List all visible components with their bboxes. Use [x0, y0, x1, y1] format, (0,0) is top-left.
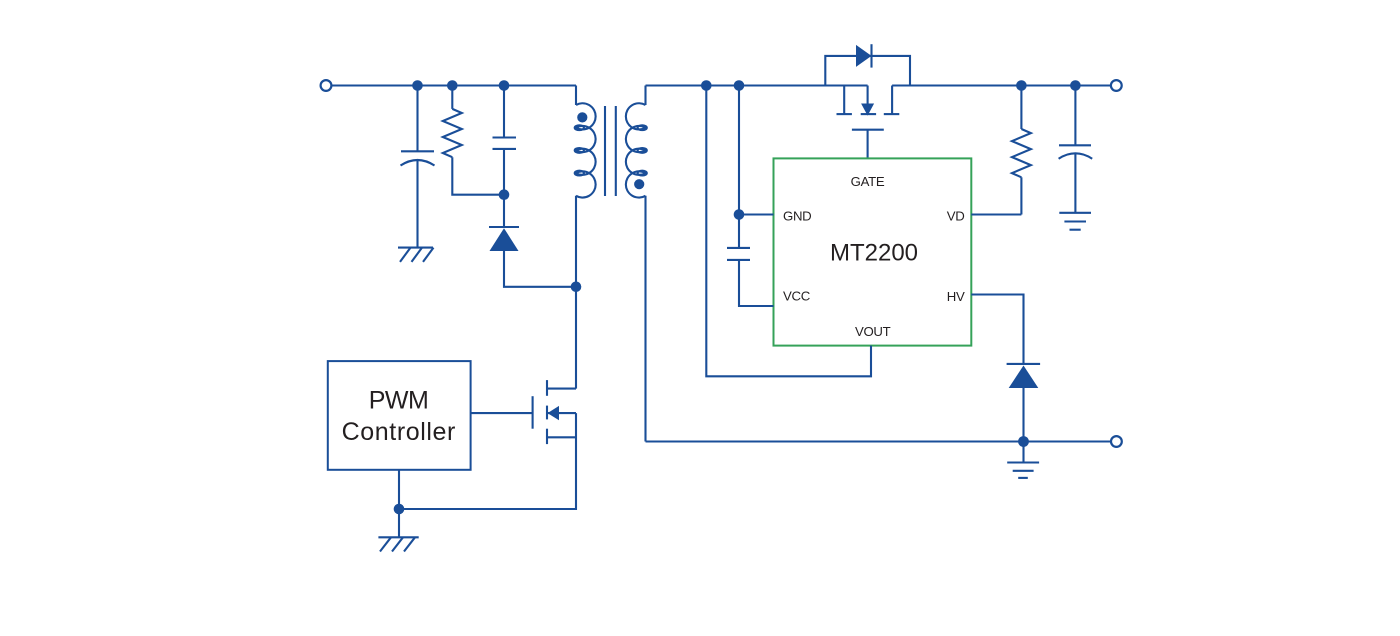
wire: R2 top lead	[1020, 86, 1022, 130]
resistor R1 (snubber)	[443, 109, 462, 157]
node: rail / C1 junction	[412, 80, 423, 91]
wire: Q1 drain to primary	[575, 287, 577, 389]
wire: C4 top lead	[1074, 86, 1076, 146]
svg-text:GATE: GATE	[851, 174, 885, 189]
wire: rail from Q2 source to output	[892, 84, 1111, 86]
node: primary bottom / drain junction	[571, 282, 582, 293]
node: rail / VCC-wire junction	[734, 80, 745, 91]
wire: HV pin to D3	[971, 295, 1023, 366]
wire: D1 anode to primary bottom node	[504, 251, 576, 287]
wire: bottom rail	[646, 440, 1111, 442]
capacitor C3 (VCC bypass)	[727, 248, 750, 260]
wire: Q2 body-diode loop	[825, 56, 910, 86]
primary winding dot	[577, 112, 587, 122]
node: GND pin junction	[734, 209, 745, 220]
wire: VD pin to R2	[971, 213, 1021, 215]
diode D1 (snubber, cathode up)	[489, 227, 519, 251]
node: R1/C2/D1 junction	[499, 189, 510, 200]
node: rail / VOUT-wire junction	[701, 80, 712, 91]
wire: R1 top lead	[451, 86, 453, 109]
transformer T1 secondary winding	[626, 86, 647, 442]
wire: VCC rail from top	[738, 86, 740, 248]
output terminal (bottom-right)	[1111, 436, 1122, 447]
svg-text:VD: VD	[947, 208, 965, 223]
svg-text:PWM: PWM	[369, 386, 429, 414]
output terminal (top-right)	[1111, 80, 1122, 91]
ground (chassis, under C1)	[398, 248, 434, 262]
node: bottom rail / D3 junction	[1018, 436, 1029, 447]
diode D3 (HV, cathode up)	[1007, 364, 1041, 388]
ground (chassis, under PWM)	[378, 537, 418, 551]
svg-text:MT2200: MT2200	[830, 240, 918, 267]
wire: C3 to VCC pin	[739, 260, 774, 306]
IC U1 MT2200 box	[774, 158, 972, 345]
wire: VOUT pin routing	[706, 86, 871, 377]
capacitor C4 (output, polarized)	[1059, 145, 1093, 158]
capacitor C2 (snubber)	[493, 138, 517, 149]
wire: D3 anode to bottom rail	[1022, 388, 1024, 442]
mosfet Q1 (primary switch, vertical)	[533, 380, 576, 444]
node: rail / R2 junction	[1016, 80, 1027, 91]
svg-text:Controller: Controller	[342, 418, 456, 446]
wire: C1 top lead	[416, 86, 418, 152]
wire: Q2 gate to GATE pin	[867, 130, 869, 159]
wire: top-left rail from input terminal to primary	[332, 84, 576, 86]
wire: C1 bottom lead	[416, 160, 418, 247]
input terminal (top-left)	[321, 80, 332, 91]
wire: C2 top lead	[503, 86, 505, 138]
PWM controller box	[328, 361, 471, 470]
transformer core	[605, 106, 616, 196]
wire: R1 bottom lead to junction	[452, 157, 504, 195]
svg-text:GND: GND	[783, 208, 811, 223]
svg-text:VCC: VCC	[783, 289, 811, 304]
wire: C2 bottom lead	[503, 149, 505, 227]
wire: GND pin	[739, 213, 774, 215]
secondary winding dot	[634, 179, 644, 189]
wire: secondary top rail (to Q2 drain side)	[646, 84, 868, 86]
wire: R2 bottom lead	[1020, 177, 1022, 214]
ground (signal, under C4)	[1059, 213, 1091, 230]
ground (signal, under bottom rail)	[1007, 442, 1039, 478]
wire: PWM box to ground	[398, 470, 400, 538]
wire: C4 bottom lead	[1074, 154, 1076, 213]
mosfet Q2 (sync rectifier, horizontal)	[837, 86, 900, 130]
svg-text:HV: HV	[947, 289, 965, 304]
node: rail / C4 junction	[1070, 80, 1081, 91]
resistor R2 (VD sense)	[1012, 129, 1031, 177]
svg-text:VOUT: VOUT	[855, 324, 891, 339]
node: rail / C2 junction	[499, 80, 510, 91]
diode D2 (across Q2, pointing right)	[856, 44, 872, 67]
node: rail / R1 junction	[447, 80, 458, 91]
node: PWM ground junction	[394, 504, 405, 515]
wire: Q1 source down and to ground node	[399, 413, 576, 509]
capacitor C1 (input bulk, polarized)	[401, 151, 435, 165]
wire: PWM gate drive	[471, 412, 533, 414]
transformer T1 primary winding	[575, 86, 596, 287]
